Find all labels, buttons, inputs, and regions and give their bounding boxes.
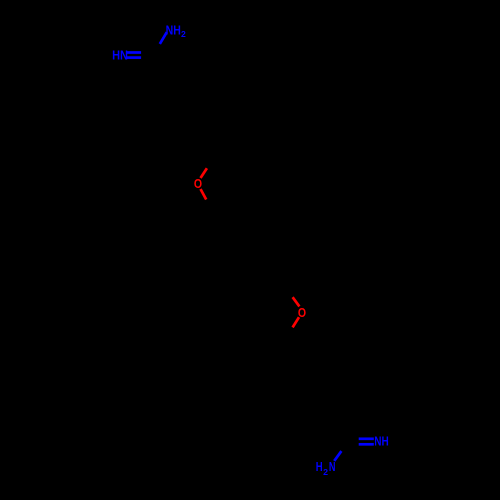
svg-text:2: 2: [323, 468, 328, 477]
svg-text:N: N: [329, 460, 336, 474]
svg-text:HN: HN: [112, 49, 128, 63]
svg-text:NH: NH: [166, 23, 181, 37]
svg-text:H: H: [316, 460, 323, 474]
svg-text:2: 2: [181, 30, 186, 39]
svg-text:O: O: [194, 177, 202, 191]
svg-text:O: O: [298, 306, 306, 320]
svg-text:NH: NH: [374, 435, 389, 449]
